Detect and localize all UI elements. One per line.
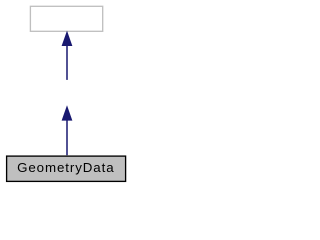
svg-text:GeometryData: GeometryData bbox=[17, 160, 114, 175]
